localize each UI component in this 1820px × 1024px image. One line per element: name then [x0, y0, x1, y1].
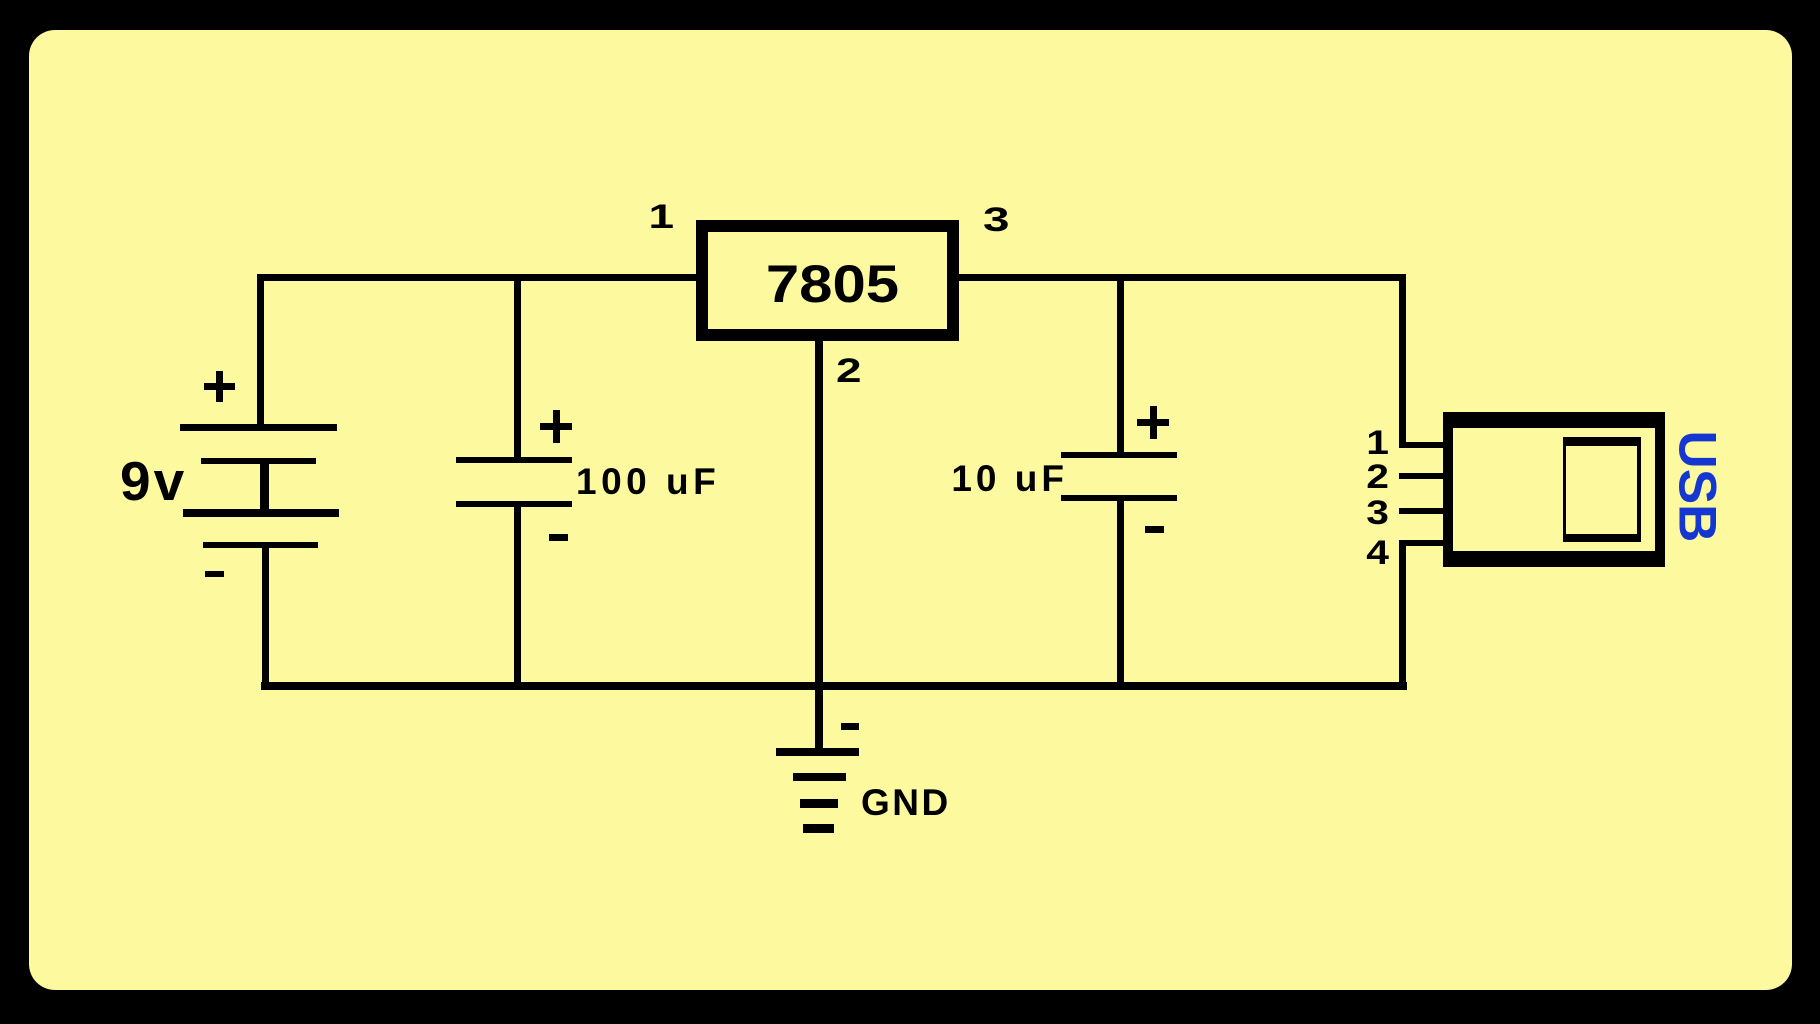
battery BT1 9v	[180, 424, 337, 431]
battery minus label	[205, 571, 224, 577]
label USB	[1671, 407, 1724, 567]
wire C2 top drop	[1117, 274, 1124, 458]
C1 plus label	[540, 423, 572, 430]
wire bottom rail	[261, 682, 1407, 690]
label 10 uF	[948, 460, 1068, 498]
wire top rail	[257, 274, 1404, 281]
wire usb bottom drop	[1399, 540, 1406, 690]
label 9v	[120, 454, 187, 509]
usb pin stub 2	[1399, 473, 1443, 479]
pin label 3 (7805 output)	[983, 203, 1009, 237]
label 100 uF	[576, 463, 720, 501]
usb pin label 2	[1329, 460, 1389, 494]
usb pin label 1	[1329, 426, 1389, 460]
capacitor C1 100uF	[456, 457, 572, 463]
usb pin stub 4	[1399, 540, 1443, 546]
wire C1 top drop	[514, 274, 521, 463]
usb pin label 3	[1329, 496, 1389, 530]
wire battery positive drop	[257, 274, 264, 431]
C2 minus label	[1145, 526, 1164, 533]
usb pin stub 3	[1399, 508, 1443, 514]
wire battery negative drop	[262, 545, 269, 690]
C2 plus label	[1137, 419, 1169, 426]
ground symbol	[776, 748, 859, 756]
wire usb top drop	[1399, 274, 1406, 448]
pin label 2 (7805 ground)	[836, 354, 862, 388]
usb connector J1	[1443, 412, 1665, 567]
wire 7805 pin2 to ground	[815, 341, 823, 752]
ground minus label	[841, 723, 859, 730]
label GND	[861, 784, 951, 822]
capacitor C2 10uF	[1061, 452, 1177, 458]
wire C2 bottom drop	[1117, 495, 1124, 690]
wire C1 bottom drop	[514, 501, 521, 690]
usb pin stub 1	[1399, 442, 1443, 448]
C1 minus label	[549, 534, 568, 541]
usb pin label 4	[1329, 536, 1389, 570]
regulator U1 7805	[696, 220, 959, 341]
pin label 1 (7805 input)	[593, 200, 674, 234]
battery plus label	[204, 383, 235, 390]
